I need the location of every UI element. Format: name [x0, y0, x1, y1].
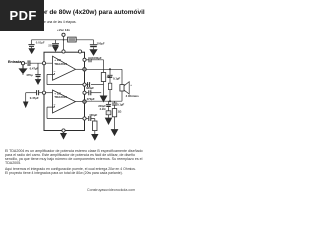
- page number mark: [137, 7, 139, 12]
- svg-text:100µF: 100µF: [97, 41, 105, 45]
- pin circles on IC box: [42, 50, 86, 132]
- output wire A1: [76, 68, 85, 70]
- speaker LS1: [120, 85, 124, 91]
- capacitor chain x110: [109, 69, 111, 75]
- terminal +Vcc 12v: [62, 33, 65, 36]
- svg-text:0.01µF: 0.01µF: [36, 41, 45, 45]
- capacitor 0.47uF input series plates: [28, 60, 30, 66]
- ground IC pin bottom: [63, 132, 65, 133]
- resistor R-1ohm: [112, 109, 116, 117]
- input2 wire corner: [26, 92, 37, 94]
- svg-text:0.1µF: 0.1µF: [117, 103, 124, 107]
- ground under chain: [100, 96, 107, 102]
- title: [8, 9, 145, 16]
- svg-text:1000µF: 1000µF: [92, 56, 102, 60]
- capacitor 0.1uF chain: [114, 101, 116, 103]
- svg-text:−: −: [54, 70, 56, 74]
- schematic labels: [8, 28, 139, 117]
- svg-text:TDA2004: TDA2004: [54, 62, 67, 66]
- ground under 0.01uF: [31, 47, 33, 49]
- svg-text:0.47µF: 0.47µF: [30, 67, 39, 71]
- paragraph 2: [5, 167, 136, 175]
- svg-text:Entrada: Entrada: [8, 60, 22, 64]
- branch 470uF: [85, 92, 89, 94]
- output line to speaker top: [85, 69, 123, 84]
- feedback loop A2: [47, 106, 85, 119]
- input terminal Entrada: [21, 62, 24, 65]
- svg-text:0.1µF: 0.1µF: [113, 77, 120, 81]
- output wire A2: [76, 101, 85, 103]
- speaker bottom wire: [85, 91, 123, 101]
- ground under C2: [93, 47, 95, 49]
- svg-text:TDA2004: TDA2004: [54, 95, 67, 99]
- PDF badge: [0, 0, 44, 31]
- op-amp triangle A2: [53, 90, 76, 113]
- capacitor 0.47uF input2 plates: [37, 90, 39, 95]
- branch 330uF: [85, 84, 89, 86]
- resistor R-4ohm: [101, 73, 105, 82]
- svg-text:1Ω: 1Ω: [118, 110, 123, 114]
- svg-text:330µF: 330µF: [86, 86, 94, 90]
- wire input: [25, 62, 27, 64]
- op-amp triangle A1: [53, 56, 76, 80]
- svg-text:+: +: [130, 83, 132, 87]
- capacitor 220uF chain: [108, 101, 110, 104]
- ground arrow input2: [25, 93, 27, 102]
- svg-text:2.2Ω: 2.2Ω: [100, 107, 107, 111]
- svg-text:2200µ: 2200µ: [48, 43, 56, 47]
- capacitor C1 electrolytic on bus: [55, 40, 57, 43]
- ground under input terminal: [22, 65, 24, 69]
- junction dot bottom: [109, 100, 111, 102]
- resistor bottom chain: [93, 121, 97, 131]
- svg-text:0.47µF: 0.47µF: [30, 96, 39, 100]
- paragraph 1: [5, 149, 143, 165]
- svg-text:470µF: 470µF: [87, 97, 95, 101]
- junction dot: [109, 68, 111, 70]
- wire input to pin: [30, 62, 53, 64]
- schematic SVG: [0, 0, 149, 198]
- capacitor C-0.01uF branch corner: [31, 40, 33, 44]
- svg-text:100µF: 100µF: [89, 113, 97, 117]
- fuse F1 on bus: [68, 37, 77, 42]
- capacitor C-0.01uF plates: [28, 45, 34, 47]
- wire input2 to A2: [39, 92, 53, 94]
- capacitor 470u to ground: [37, 64, 39, 75]
- resistor R mid chain: [108, 83, 111, 89]
- footer: [87, 188, 135, 192]
- svg-text:−: −: [54, 103, 56, 107]
- capacitor C2 100uF decoupling: [90, 44, 97, 46]
- resistor small box: [106, 111, 111, 115]
- wire Vcc bus H1: [32, 39, 94, 41]
- IC box TDA2004 outline: [44, 52, 85, 130]
- svg-text:4 Ohmios: 4 Ohmios: [126, 94, 140, 98]
- subtitle: [12, 20, 76, 24]
- branch 1000uF output cap: [85, 59, 89, 61]
- feedback loop A1: [47, 73, 85, 85]
- branch 100uF: [85, 118, 89, 120]
- wire corner to C2: [93, 40, 95, 44]
- svg-text:470µ: 470µ: [26, 73, 33, 77]
- svg-text:+Vcc 12v: +Vcc 12v: [57, 28, 70, 32]
